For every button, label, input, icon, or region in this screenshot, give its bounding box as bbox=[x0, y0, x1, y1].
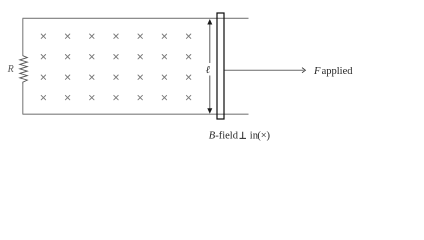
wire left upper segment bbox=[22, 18, 24, 56]
dimension arrowhead down bbox=[207, 108, 212, 114]
F applied arrow shaft bbox=[225, 69, 304, 71]
svg-text:R: R bbox=[7, 64, 14, 75]
perpendicular symbol bbox=[240, 132, 247, 139]
wire top rail bbox=[23, 17, 249, 19]
F applied arrowhead bbox=[302, 68, 305, 73]
caption: B-field perp in (x) bbox=[209, 130, 271, 141]
length dimension line lower segment bbox=[209, 76, 211, 112]
svg-text:(×): (×) bbox=[257, 130, 270, 141]
length dimension line upper segment bbox=[209, 21, 211, 63]
resistor R1 zigzag bbox=[20, 56, 28, 84]
wire bottom rail bbox=[23, 113, 249, 115]
dimension arrowhead up bbox=[207, 19, 212, 25]
rod (sliding bar) bbox=[217, 13, 224, 119]
svg-text:Fapplied: Fapplied bbox=[313, 66, 353, 77]
svg-text:ℓ: ℓ bbox=[206, 65, 211, 76]
svg-text:B-field: B-field bbox=[209, 130, 239, 141]
wire left lower segment bbox=[22, 83, 24, 114]
B-field x symbols grid (7 cols x 4 rows) bbox=[41, 34, 191, 100]
